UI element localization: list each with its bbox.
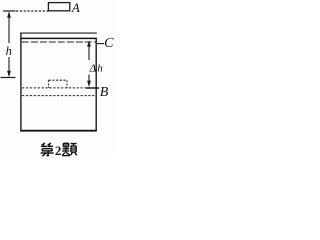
delta-h arrow: down arrowhead at level B — [87, 81, 91, 88]
level B tick — [86, 87, 99, 89]
svg-text:Δ: Δ — [89, 63, 96, 75]
lower dashed water level line — [22, 95, 95, 97]
svg-text:h: h — [6, 44, 12, 58]
container: rim bottom line — [20, 37, 97, 39]
h dimension: down arrowhead — [7, 71, 11, 78]
svg-text:B: B — [100, 85, 109, 100]
level C stub to label — [97, 43, 104, 45]
svg-text:h: h — [97, 63, 103, 75]
svg-text:2: 2 — [55, 143, 62, 157]
svg-text:C: C — [104, 36, 114, 51]
delta-h arrow: up arrowhead at level C — [87, 40, 91, 46]
h dimension: top tick — [3, 10, 16, 12]
container: bottom — [20, 130, 97, 132]
background — [0, 0, 117, 157]
h dimension: bottom tick — [1, 77, 16, 79]
water level B dashed line — [22, 87, 96, 89]
caption: character 第 — [41, 143, 54, 156]
container: right wall — [95, 38, 97, 131]
dashed block: left edge — [48, 80, 50, 88]
container: left wall — [20, 33, 22, 132]
dashed reference line at bottom of block A — [16, 10, 49, 12]
svg-text:A: A — [71, 0, 80, 15]
container: rim top line — [20, 32, 97, 34]
dashed block: right edge — [66, 80, 68, 88]
water level C dashed line — [22, 41, 96, 43]
h dimension: vertical line (interrupted by label) — [8, 14, 10, 44]
block A — [48, 3, 69, 11]
h dimension: up arrowhead — [7, 11, 11, 17]
caption: character 题 — [62, 143, 77, 155]
delta-h arrow: vertical line segments — [88, 46, 90, 60]
dashed block (submerged position): top edge — [49, 79, 67, 81]
